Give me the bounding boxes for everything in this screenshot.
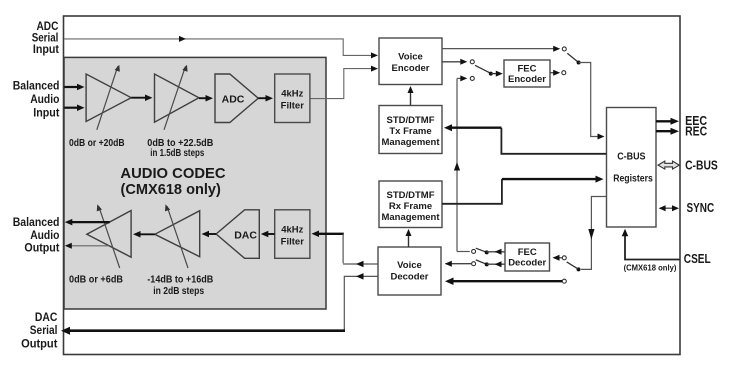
svg-text:Management: Management bbox=[381, 212, 440, 223]
svg-text:(CMX618 only): (CMX618 only) bbox=[121, 181, 221, 198]
svg-text:Balanced: Balanced bbox=[13, 81, 60, 93]
svg-text:Audio: Audio bbox=[30, 94, 59, 106]
svg-text:Voice: Voice bbox=[398, 52, 423, 63]
svg-text:Encoder: Encoder bbox=[508, 74, 546, 85]
svg-text:in 2dB steps: in 2dB steps bbox=[153, 286, 204, 297]
svg-text:Serial: Serial bbox=[32, 32, 59, 44]
svg-text:Rx Frame: Rx Frame bbox=[389, 201, 432, 212]
svg-text:AUDIO CODEC: AUDIO CODEC bbox=[120, 165, 225, 182]
svg-text:Encoder: Encoder bbox=[391, 63, 429, 74]
svg-text:-14dB to +16dB: -14dB to +16dB bbox=[147, 275, 213, 286]
svg-text:ADC: ADC bbox=[222, 94, 245, 106]
svg-text:Registers: Registers bbox=[613, 172, 653, 184]
svg-text:Tx Frame: Tx Frame bbox=[389, 126, 431, 137]
svg-text:Serial: Serial bbox=[30, 325, 58, 337]
svg-text:4kHz: 4kHz bbox=[281, 225, 303, 236]
svg-text:Filter: Filter bbox=[281, 237, 305, 248]
svg-text:(CMX618 only): (CMX618 only) bbox=[624, 263, 677, 272]
svg-text:Output: Output bbox=[21, 339, 57, 351]
svg-text:C-BUS: C-BUS bbox=[617, 151, 645, 163]
svg-text:SYNC: SYNC bbox=[687, 200, 715, 215]
svg-text:REC: REC bbox=[685, 123, 707, 138]
svg-text:Filter: Filter bbox=[281, 101, 305, 112]
svg-text:Balanced: Balanced bbox=[13, 217, 60, 229]
svg-text:ADC: ADC bbox=[37, 21, 59, 33]
svg-text:Decoder: Decoder bbox=[390, 271, 428, 282]
svg-text:Management: Management bbox=[381, 137, 440, 148]
svg-text:Audio: Audio bbox=[30, 230, 59, 242]
svg-text:STD/DTMF: STD/DTMF bbox=[386, 190, 434, 201]
svg-text:STD/DTMF: STD/DTMF bbox=[386, 115, 434, 126]
svg-text:Input: Input bbox=[33, 107, 59, 119]
svg-text:4kHz: 4kHz bbox=[281, 89, 303, 100]
svg-text:Voice: Voice bbox=[397, 260, 422, 271]
svg-text:Decoder: Decoder bbox=[508, 258, 546, 269]
svg-text:Output: Output bbox=[24, 243, 59, 255]
svg-text:0dB or +6dB: 0dB or +6dB bbox=[69, 275, 123, 286]
svg-text:FEC: FEC bbox=[518, 64, 537, 75]
svg-text:in 1.5dB steps: in 1.5dB steps bbox=[150, 148, 204, 159]
svg-text:CSEL: CSEL bbox=[684, 251, 711, 266]
svg-text:FEC: FEC bbox=[518, 247, 537, 258]
svg-text:Input: Input bbox=[33, 44, 59, 56]
svg-text:0dB or +20dB: 0dB or +20dB bbox=[69, 138, 125, 149]
svg-text:C-BUS: C-BUS bbox=[685, 158, 718, 173]
svg-text:DAC: DAC bbox=[234, 229, 257, 241]
svg-text:DAC: DAC bbox=[35, 312, 58, 324]
